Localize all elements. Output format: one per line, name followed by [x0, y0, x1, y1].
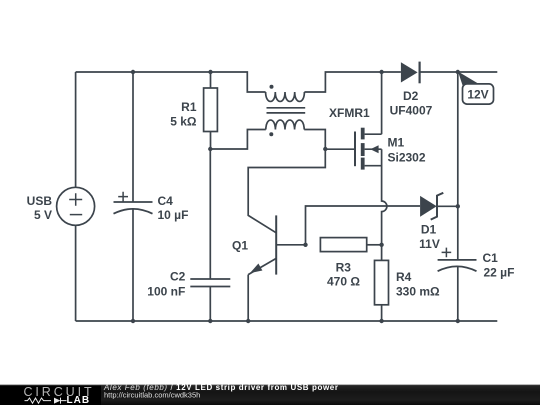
wire primary right to drain node and D2 anode — [304, 72, 401, 92]
diode D1 zener triangle — [420, 196, 437, 217]
node junction Q1 emitter rail — [246, 319, 250, 323]
transistor Q1 emitter diagonal — [248, 258, 276, 274]
diode D2 cathode bar — [419, 62, 421, 84]
capacitor C4 bottom curved plate — [114, 209, 153, 214]
svg-text:R3: R3 — [336, 261, 352, 275]
voltage source USB circle — [57, 187, 95, 225]
footer logo background — [0, 386, 101, 405]
node junction C4 top — [131, 70, 135, 74]
node junction C2 bottom — [208, 319, 212, 323]
wire Q1 base to R3 — [276, 244, 305, 246]
transistor Q1 base bar — [275, 215, 277, 274]
voltage source USB plus — [69, 193, 82, 205]
node junction R3 R4 M1 source — [379, 243, 383, 247]
resistor R1 body — [204, 88, 218, 132]
svg-text:100 nF: 100 nF — [147, 285, 185, 299]
net flag 12V box — [463, 84, 494, 104]
transformer XFMR1 secondary winding — [266, 120, 304, 129]
capacitor C2 plates — [190, 279, 230, 287]
svg-text:M1: M1 — [388, 136, 405, 150]
wire top rail from USB to primary left — [76, 72, 266, 92]
mosfet M1 drain tap — [365, 133, 382, 135]
wire R4 leads — [381, 245, 383, 321]
net flag 12V pointer — [458, 72, 480, 90]
wire USB top lead — [75, 72, 77, 187]
mosfet M1 body arrow — [370, 145, 378, 153]
node junction 12V output — [456, 70, 460, 74]
resistor R4 body — [375, 260, 389, 304]
wire M1 drain up — [381, 72, 383, 134]
wire secondary right down to Q1 collector — [248, 130, 325, 233]
transformer XFMR1 core lines — [267, 108, 306, 113]
transformer XFMR1 primary winding — [266, 92, 305, 101]
svg-text:LAB: LAB — [67, 395, 91, 405]
capacitor C1 bottom curved plate — [438, 266, 477, 271]
mosfet M1 channel segments — [361, 128, 365, 170]
transistor Q1 emitter arrow — [250, 264, 262, 274]
wire D2 cathode to 12V stub — [420, 71, 498, 73]
node junction D1 cathode — [456, 204, 460, 208]
svg-text:12V: 12V — [467, 88, 488, 102]
wire R1 bottom to C2 — [209, 149, 211, 279]
svg-text:330 mΩ: 330 mΩ — [396, 285, 440, 299]
svg-text:D1: D1 — [421, 223, 437, 237]
node junction R1 bottom — [208, 147, 212, 151]
mosfet M1 gate bar — [354, 132, 356, 167]
wire Q1 emitter down to rail — [247, 275, 249, 321]
footer bar background — [0, 385, 540, 405]
svg-text:5 kΩ: 5 kΩ — [170, 114, 197, 128]
node junction M1 drain at top rail — [379, 70, 383, 74]
node junction R1 top — [208, 70, 212, 74]
wire USB bottom lead — [75, 225, 77, 321]
svg-text:C1: C1 — [483, 251, 499, 265]
wire C4 bottom down — [132, 209, 134, 321]
capacitor C4 top plate — [114, 201, 153, 203]
wire R1 leads — [210, 72, 212, 149]
svg-text:R4: R4 — [396, 270, 412, 284]
svg-text:11V: 11V — [419, 237, 440, 251]
capacitor C1 top plate — [438, 259, 477, 261]
svg-text:5 V: 5 V — [34, 208, 52, 222]
node junction R4 bottom rail — [379, 319, 383, 323]
svg-text:C2: C2 — [170, 270, 186, 284]
footer logo resistor zigzag and diode — [25, 398, 67, 404]
capacitor C1 plus sign — [442, 248, 452, 258]
svg-text:XFMR1: XFMR1 — [329, 106, 370, 120]
svg-text:D2: D2 — [403, 89, 419, 103]
transformer XFMR1 primary phase dot — [270, 85, 274, 89]
node junction Q1 base — [303, 243, 307, 247]
node junction C4 bottom — [131, 319, 135, 323]
svg-text:C4: C4 — [158, 194, 174, 208]
wire C2 bottom down — [209, 287, 211, 322]
wire R1 bottom to secondary left — [210, 130, 265, 150]
mosfet M1 body line — [365, 148, 382, 150]
svg-text:http://circuitlab.com/cwdk35h: http://circuitlab.com/cwdk35h — [104, 391, 200, 400]
mosfet M1 source tap — [365, 165, 382, 167]
svg-text:22 µF: 22 µF — [484, 265, 515, 279]
node junction C1 bottom rail — [456, 319, 460, 323]
svg-text:UF4007: UF4007 — [390, 104, 433, 118]
wire C1 bottom down — [457, 266, 459, 321]
svg-text:USB: USB — [27, 194, 53, 208]
capacitor C4 wire top — [132, 72, 134, 202]
svg-text:470 Ω: 470 Ω — [327, 275, 360, 289]
wire Q1 base node up and right to D1 anode — [306, 206, 421, 245]
svg-text:R1: R1 — [181, 100, 197, 114]
wire gate of M1 — [325, 148, 355, 150]
voltage source USB minus — [70, 214, 82, 216]
wire M1 source down with hop over base wire — [382, 149, 387, 245]
resistor R3 body — [320, 238, 366, 252]
wire R3 right lead — [367, 244, 382, 246]
wire 12V rail down right side — [457, 72, 459, 260]
node junction gate tap — [323, 147, 327, 151]
diode D2 triangle — [401, 62, 418, 82]
svg-text:10 µF: 10 µF — [158, 208, 189, 222]
svg-text:Q1: Q1 — [232, 239, 248, 253]
transformer XFMR1 secondary phase dot — [269, 132, 273, 136]
diode D1 zener bar with hooks — [431, 193, 444, 220]
wire D1 cathode to rail — [437, 205, 458, 207]
capacitor C4 plus sign — [118, 192, 128, 202]
wire bottom ground rail — [76, 320, 498, 322]
svg-text:Si2302: Si2302 — [388, 151, 426, 165]
